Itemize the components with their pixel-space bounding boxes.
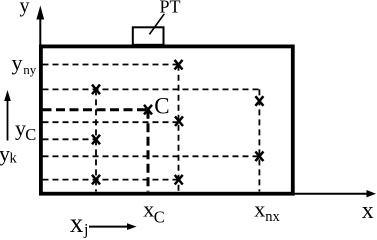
marker cross right lower xyxy=(255,152,263,162)
label x_j xyxy=(70,208,89,238)
svg-text:C: C xyxy=(154,94,169,119)
left arrow up xyxy=(4,90,11,141)
thick dashed line y_C of center xyxy=(43,108,149,111)
marker cross bottom mid xyxy=(175,175,183,185)
thick vertical dashed line x_C xyxy=(147,110,150,192)
svg-text:k: k xyxy=(10,151,18,167)
svg-text:nx: nx xyxy=(265,209,280,225)
y-axis xyxy=(36,6,44,46)
dashed line y_C label row xyxy=(43,138,97,140)
svg-text:PT: PT xyxy=(160,0,181,17)
svg-text:x: x xyxy=(362,198,374,224)
dashed line bottom row xyxy=(43,179,180,181)
PT box xyxy=(133,27,164,45)
svg-text:j: j xyxy=(83,221,88,238)
marker cross row4 xyxy=(175,116,183,126)
dashed line row 4 xyxy=(43,121,180,123)
label y_C xyxy=(15,116,36,144)
label y_k xyxy=(0,141,18,167)
marker cross 1 top xyxy=(175,60,183,70)
board rectangle xyxy=(41,46,293,193)
label x_C xyxy=(143,196,165,226)
svg-text:x: x xyxy=(254,196,265,221)
label x_nx xyxy=(254,196,280,225)
vertical dashed line column 3 xyxy=(178,65,180,192)
svg-text:y: y xyxy=(12,50,23,75)
svg-text:y: y xyxy=(0,141,10,166)
dashed line row 2 xyxy=(43,88,260,90)
marker cross y_C row xyxy=(92,135,100,145)
marker cross C center xyxy=(144,105,152,115)
svg-text:x: x xyxy=(70,208,84,238)
svg-text:C: C xyxy=(154,208,165,227)
svg-text:x: x xyxy=(143,196,154,221)
label y_ny xyxy=(12,50,37,77)
svg-text:C: C xyxy=(25,125,36,144)
x_j arrow right xyxy=(89,223,137,230)
PT pointer line xyxy=(149,14,164,35)
x-axis xyxy=(294,190,376,197)
dashed line y_ny xyxy=(43,64,179,66)
vertical dashed line x_j column xyxy=(95,89,97,191)
vertical dashed line x_nx column xyxy=(258,89,260,191)
marker cross right upper xyxy=(255,96,263,106)
svg-text:y: y xyxy=(20,0,30,17)
dashed line y_k xyxy=(43,155,260,157)
marker cross bottom left xyxy=(92,175,100,185)
svg-text:ny: ny xyxy=(23,62,37,77)
marker cross 2 xyxy=(92,85,100,95)
